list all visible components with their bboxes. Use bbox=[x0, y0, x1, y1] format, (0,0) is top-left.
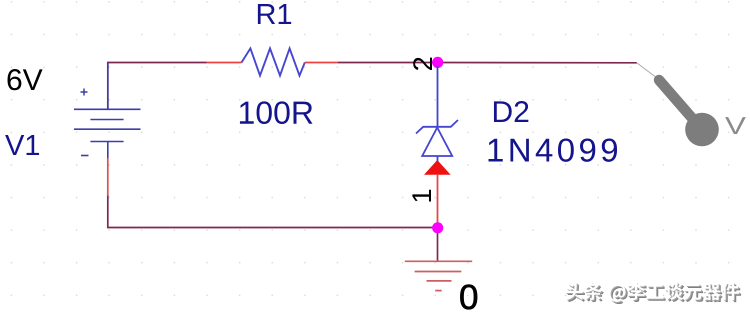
label D2 bbox=[494, 101, 528, 122]
wire resistor to node 2 bbox=[337, 62, 437, 64]
battery V1 bbox=[74, 63, 141, 159]
label 1N4099 bbox=[489, 138, 618, 161]
pin number 2 bbox=[413, 58, 432, 70]
ground bbox=[405, 261, 472, 290]
wire battery bottom to node 1 bbox=[108, 195, 438, 228]
pin number 1 bbox=[412, 190, 431, 202]
node 2 junction dot bbox=[432, 57, 443, 68]
label V1 bbox=[5, 135, 39, 155]
zener D2 bottom pin bbox=[437, 175, 439, 223]
voltage probe bbox=[637, 63, 719, 146]
label 6V bbox=[8, 69, 43, 90]
resistor R1 bbox=[207, 48, 338, 75]
label 0 (ground net) bbox=[460, 285, 477, 310]
node 1 junction dot bbox=[432, 222, 443, 233]
battery V1 bottom pin bbox=[107, 158, 109, 196]
wire node 1 to ground bbox=[437, 228, 439, 261]
zener diode D2 bbox=[416, 66, 458, 162]
wire node 2 to probe bbox=[438, 62, 637, 64]
wire battery top to resistor bbox=[108, 63, 207, 110]
label V (probe) bbox=[725, 117, 746, 134]
label R1 bbox=[258, 4, 291, 24]
zener D2 anode arrow bbox=[424, 160, 451, 175]
watermark 头条@李工谈元器件 bbox=[565, 282, 741, 304]
label 100R bbox=[240, 101, 313, 124]
